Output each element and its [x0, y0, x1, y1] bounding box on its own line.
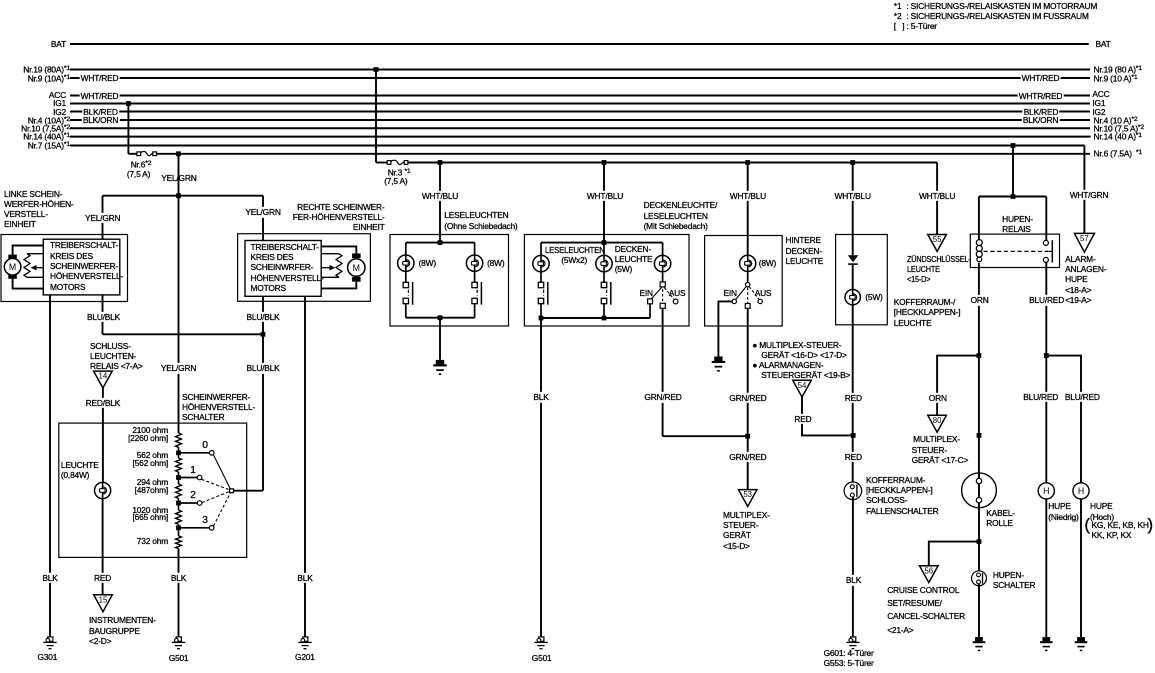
junction Nr.19 feed [374, 67, 379, 72]
label WHT/BLU 4 [833, 191, 872, 201]
wiper arrow left [31, 265, 44, 271]
wire ladder seg3 [178, 498, 180, 510]
connector 54 Alarmanlagen [793, 380, 812, 397]
wire EIN contact down [649, 304, 651, 318]
label resistor 732 [108, 536, 168, 546]
switch trunk lock [844, 482, 862, 500]
selector arm EIN dome [651, 287, 662, 299]
label BLK/RED right [1022, 106, 1059, 116]
wire BLU/BLK from left unit [102, 295, 104, 334]
label Leseleuchten 5Wx2 [545, 245, 605, 255]
wire switch down 1b [474, 304, 476, 318]
wire ORN branch to connector 80 [937, 356, 979, 416]
selector dashed AUS rear [749, 287, 759, 300]
label Multiplex 17-C [912, 434, 969, 465]
wire lamp to switch 2b [603, 272, 605, 283]
lamp reading right 8W [466, 255, 482, 271]
junction rail top box1 [438, 240, 443, 245]
label resistor 294 [108, 479, 168, 495]
wire tap 1 [179, 477, 198, 479]
label RED 54 [793, 414, 813, 424]
wire motor top left [13, 246, 44, 255]
wire Nr.19 down to fuse Nr.3 [375, 70, 377, 163]
relay actuation dashed [984, 250, 1049, 252]
label resistor 1020 [108, 507, 168, 523]
junction WHT/BLU 3 [745, 160, 750, 165]
selector dashed AUS dome [664, 288, 674, 300]
label ACC right [1092, 89, 1109, 99]
wire Nr.7 corner down to WHT/GRN drop [1083, 146, 1085, 234]
wire BLU/BLK down to wiper [262, 334, 264, 490]
wire YEL/GRN to left unit [102, 196, 104, 240]
label BLU/BLK lower [245, 363, 281, 373]
wire lamp drop 1b [474, 243, 476, 256]
wire to connector 56 [929, 542, 979, 566]
junction rail top box2 [602, 240, 607, 245]
fuse Nr.3 *1 (7,5A) [387, 160, 408, 164]
wire fuse Nr.3 feed stub [376, 162, 388, 164]
resistor feedback left [24, 254, 30, 278]
wire IG1 down to fuse Nr.6 [127, 104, 129, 154]
wire RED/BLK to lamp [102, 388, 104, 482]
wiper arm position 3 dashed [214, 493, 231, 526]
label Nr.19 right [1094, 64, 1142, 75]
driver circuit box right [245, 241, 321, 297]
label 5Wx2 [561, 255, 587, 265]
wire ladder seg2 [178, 472, 180, 484]
label Nr.14 left [0, 131, 70, 142]
wire resistor bottom left [27, 276, 43, 278]
label YEL/GRN fuse [161, 173, 196, 183]
label Nr.6 right [1094, 148, 1143, 159]
label Hupen-Relais [1002, 214, 1033, 235]
label WHT/RED right [1020, 73, 1061, 83]
wire rear lamp to pivot [747, 272, 749, 283]
label Alarmanlagen-Hupe [1065, 254, 1106, 305]
wire motor top right [321, 246, 356, 253]
wire ladder seg1 [178, 447, 180, 458]
wire YEL/GRN to level switch [178, 196, 180, 433]
wire GRN/RED from dome selector [662, 308, 664, 436]
lamp LEUCHTE 0.84W [95, 482, 111, 498]
svg-text:15: 15 [99, 595, 108, 604]
label note multiplex/alarm [752, 340, 850, 381]
wire resistor top left [27, 253, 43, 255]
label Hupe Hoch variants [1084, 520, 1089, 532]
label fuse Nr.3 [388, 167, 411, 178]
lamp dome 5W [654, 255, 670, 271]
ground G501 switch [172, 637, 185, 649]
legend note *1 [894, 1, 1097, 11]
label WHT/RED ACC left [79, 90, 120, 100]
wire horn switch to ground [978, 584, 980, 638]
svg-text:53: 53 [743, 490, 752, 499]
junction ORN [977, 353, 982, 358]
label Instrumenten-Baugruppe [89, 615, 156, 646]
wire ORN from coil [978, 263, 980, 356]
junction tap 1 [176, 475, 181, 480]
junction rail bottom box2 left [539, 316, 544, 321]
wire switch down 2a [540, 304, 542, 318]
label Kofferraum Leuchte [894, 297, 961, 328]
label Nr.10 right [1094, 123, 1145, 134]
lamp reading 5Wx2 mid [596, 255, 612, 271]
cable reel Kabel-Rolle [962, 473, 997, 508]
svg-text:56: 56 [924, 566, 933, 575]
relay contact [1043, 240, 1052, 262]
label Hupe Niedrig [1048, 501, 1078, 522]
label 8W left [419, 258, 436, 268]
label Kofferraum Schalter [866, 475, 938, 516]
wire resistor top right [321, 253, 339, 255]
resistor feedback right [336, 254, 342, 278]
selector arm EIN rear [736, 286, 747, 299]
reading lights box (ohne Schiebedach) [390, 235, 509, 327]
wire lamp to instrument [102, 499, 104, 595]
lamp trunk 5W [845, 290, 860, 305]
svg-text:M: M [9, 262, 16, 272]
wire motor bottom right [321, 282, 356, 289]
label Kabel-Rolle [986, 508, 1015, 529]
wire WHT/BLU drop 1 [439, 163, 441, 243]
label WHT/BLU 3 [728, 191, 767, 201]
junction BLU/RED [1044, 353, 1049, 358]
label RED/BLK [84, 397, 121, 407]
wire horn feed rail [979, 196, 1046, 198]
ground G501 dome box [534, 637, 547, 649]
label 8W right [487, 258, 504, 268]
label BLK G501 [169, 573, 187, 583]
junction horn feed [1011, 143, 1016, 148]
wire feed to coil [978, 197, 980, 240]
svg-text:57: 57 [1080, 234, 1089, 243]
label 8W rear [759, 258, 776, 268]
label fuse Nr.6 [131, 159, 152, 170]
motor M right [348, 253, 365, 281]
label Deckenleuchte header [644, 200, 718, 231]
wire switch down 1a [405, 304, 407, 318]
label BLU/BLK right [245, 311, 281, 321]
wire lamp to switch 1a [405, 271, 407, 282]
label WHT/BLU 1 [420, 191, 459, 201]
wiper arrow right [321, 265, 335, 271]
connector 80 Multiplex 17-C [928, 415, 947, 432]
wire BLU/RED to horn low [1045, 356, 1047, 483]
label Nr.4 left [0, 115, 70, 126]
label Nr.19 left [0, 64, 70, 75]
label G601/G553 [824, 648, 874, 669]
label BLK/ORN left [81, 115, 119, 125]
wire rail bottom box1 [406, 317, 475, 319]
switch reading left [403, 282, 413, 305]
junction WHT/BLU 1 [438, 160, 443, 165]
svg-text:80: 80 [933, 416, 942, 425]
wiper arm position 1 dashed [202, 479, 230, 490]
label WHT/GRN [1068, 190, 1110, 200]
wire trunk switch to ground [852, 497, 854, 637]
label level switch [182, 392, 255, 423]
wire lamp drop 2c [662, 243, 664, 256]
bus BAT [70, 43, 1089, 45]
wire wiper out [234, 490, 264, 492]
bus Nr.4 (10A) BLK/ORN [70, 119, 1090, 121]
wire Nr.6 line to right [157, 153, 1091, 155]
connector 14 Schlussleuchten-Relais [94, 371, 113, 388]
label cruise control [887, 584, 965, 638]
label IG2 right [1092, 107, 1105, 117]
label Decken-Leuchte 5W [615, 244, 653, 275]
svg-text:55: 55 [933, 235, 942, 244]
label BLK G201 [296, 573, 314, 583]
label Schlussleuchten-Relais [90, 341, 143, 372]
level switch box [59, 423, 247, 557]
ground reading lights [433, 360, 446, 375]
label position 0 [202, 441, 207, 451]
ground G301 [43, 637, 56, 649]
wire horn feed down [1012, 146, 1014, 197]
bus IG2 BLK/RED [70, 111, 1090, 113]
label 5W trunk [865, 292, 882, 302]
label right unit [275, 202, 385, 233]
wire horn high to ground [1080, 499, 1082, 637]
label Nr.10 left [0, 123, 70, 134]
driver circuit box left [43, 239, 120, 295]
right leveling unit box [238, 234, 371, 302]
resistor 1020 ohm [176, 510, 182, 524]
label left unit [4, 189, 74, 230]
wire BLK from box2 [540, 318, 542, 637]
wire switch down 2b [603, 304, 605, 318]
wire lamp drop 2b [603, 243, 605, 256]
junction cruise tap [977, 539, 982, 544]
wire YEL/GRN drop from fuse [178, 154, 180, 196]
resistor 2100 ohm [176, 433, 182, 447]
ground horn high [1075, 637, 1088, 651]
label BLK/RED left [82, 106, 119, 116]
wire tap 2 [179, 502, 198, 504]
connector 15 Instrumenten-Baugruppe [94, 595, 113, 612]
wire fuse Nr.6 feed line [128, 153, 137, 155]
wire BLK from left unit [49, 295, 51, 637]
label YEL/GRN switch [159, 363, 197, 373]
contact 3 [209, 526, 214, 531]
label YEL/GRN right unit [244, 207, 282, 217]
junction YEL/GRN tap [176, 151, 181, 156]
svg-text:H: H [1078, 486, 1084, 496]
label Nr.9 right [1094, 73, 1138, 84]
label IG2 left [0, 107, 66, 117]
wire lamp drop 2a [540, 243, 542, 256]
selector pivot dome [660, 282, 665, 287]
wire trunk lamp down [852, 305, 854, 485]
resistor 562 ohm [176, 458, 182, 472]
wire lamp to switch 1b [474, 271, 476, 282]
wire WHT/BLU drop 5 [936, 163, 938, 235]
relay coil [976, 240, 982, 262]
label EIN dome [640, 288, 653, 298]
junction YEL/GRN tee [176, 193, 181, 198]
label GRN/RED dome [643, 392, 683, 402]
label ORN relay [969, 295, 990, 305]
wire diode to lamp [852, 265, 854, 290]
label AUS dome [669, 288, 686, 298]
wire cable reel down [978, 508, 980, 573]
label BLK trunk [844, 575, 862, 585]
label RED trunk [843, 393, 863, 403]
junction RED 54 [851, 433, 856, 438]
label Nr.4 right [1094, 115, 1138, 126]
junction WHT/BLU 4 [850, 160, 855, 165]
label IG1 right [1092, 98, 1105, 108]
contact 1 [197, 475, 202, 480]
svg-text:14: 14 [99, 372, 108, 381]
contact 2 [197, 501, 202, 506]
label WHTR/RED right [1017, 90, 1064, 100]
wire box1 to ground [439, 318, 441, 360]
lamp reading left 8W [398, 255, 414, 271]
label BLU/RED high [1063, 392, 1101, 402]
resistor 732 ohm [176, 536, 182, 549]
connector 53 Multiplex [738, 490, 757, 507]
trunk light box [836, 235, 888, 325]
wire lamp drop 1a [405, 243, 407, 256]
label driver circuit right [251, 242, 324, 293]
label G301 [38, 652, 58, 662]
label fuse Nr.3 amp [384, 176, 407, 186]
label driver circuit left [50, 240, 123, 291]
contact EIN rear [732, 299, 736, 303]
junction tap 2 [176, 501, 181, 506]
contact AUS rear [758, 299, 762, 303]
label WHT/BLU 2 [585, 191, 624, 201]
fuse Nr.6 *2 (7,5A) [137, 152, 157, 156]
label RED instrument [93, 573, 113, 583]
label YEL/GRN left unit [84, 212, 122, 222]
label BAT left [0, 39, 66, 49]
bus ACC WHT/RED [70, 95, 1090, 97]
junction rail bottom box2 mid [602, 316, 607, 321]
connector 55 Zuendschluessel [928, 235, 947, 252]
wiper contact [230, 489, 234, 493]
wire GRN/RED rear down [747, 308, 749, 489]
ground horn switch [973, 637, 986, 651]
junction horn feed rail [1011, 194, 1016, 199]
label Leuchte 0.84W [61, 460, 99, 481]
label G201 [295, 652, 315, 662]
label WHT/BLU 5 [917, 191, 956, 201]
svg-text:H: H [1043, 486, 1049, 496]
label fuse Nr.6 amp [127, 169, 150, 179]
bus Nr.7 (15A) [70, 145, 1084, 147]
junction BLU/BLK [261, 332, 266, 337]
wire rail top box1 [406, 242, 475, 244]
label EIN rear [724, 288, 737, 298]
label Multiplex 15-D [723, 510, 770, 551]
contact mid dome [660, 303, 665, 308]
horn high (Hoch) [1073, 483, 1089, 499]
bus Nr.10 (7.5A) [70, 127, 1090, 129]
wire tap 0 [179, 452, 210, 454]
junction tap 0 [176, 450, 181, 455]
label GRN/RED rear [728, 393, 768, 403]
wire lamp to switch 2a [540, 272, 542, 283]
label G501 dome [532, 653, 552, 663]
label Nr.9 left [0, 73, 70, 84]
dome/reading lights box (mit Schiebedach) [524, 235, 689, 327]
wire ladder seg4 [178, 524, 180, 536]
diode trunk [848, 255, 859, 265]
junction rail bottom box1 [438, 315, 443, 320]
label GRN/RED rear 2 [728, 452, 768, 462]
wire tap 3 [179, 527, 210, 529]
label Nr.7 left [0, 140, 70, 151]
wire RED from connector 54 [802, 397, 853, 435]
legend note 5-Tuerer [894, 21, 937, 31]
switch reading 2a [538, 282, 548, 305]
wire BLK from right unit [304, 296, 306, 637]
wire rail top box2 [541, 242, 663, 244]
wire WHT/BLU drop 3 [747, 163, 749, 256]
label BLK/ORN right [1021, 115, 1059, 125]
switch reading 2b [601, 282, 611, 305]
svg-text:M: M [353, 263, 360, 273]
bus Nr.19 (80A) [70, 69, 1090, 71]
svg-text:54: 54 [798, 381, 807, 390]
ground G201 [298, 637, 311, 649]
wire rail bottom box2 [541, 317, 650, 319]
selector pivot rear [746, 282, 750, 286]
ground G601/G553 [846, 637, 859, 649]
bus Nr.14 (40A) [70, 136, 1091, 138]
junction GRN/RED [745, 434, 750, 439]
selector dashed center dome [662, 289, 664, 303]
label Hintere Deckenleuchte [786, 235, 824, 266]
junction IG1 feed [126, 101, 131, 106]
wire WHT/BLU drop 4 [852, 163, 854, 256]
label BLK dome [532, 392, 550, 402]
junction WHT/BLU 2 [602, 160, 607, 165]
contact mid rear [745, 304, 750, 309]
horn relay box [970, 234, 1059, 267]
label ORN 80 [927, 392, 948, 402]
label BLU/RED low [1022, 392, 1060, 402]
label RED trunk 2 [843, 452, 863, 462]
ground rear dome [712, 357, 725, 372]
contact EIN dome [648, 299, 653, 304]
label BLU/BLK left [85, 311, 121, 321]
wire ORN to cable reel [978, 356, 980, 473]
wire Nr.3 line to right [408, 162, 937, 164]
wire feed to contact [1045, 197, 1047, 241]
selector dashed center rear [747, 288, 749, 304]
label Zuendschluessel-Leuchte [907, 254, 971, 285]
label BLK G301 [41, 573, 59, 583]
label Hupen-Schalter [993, 570, 1035, 591]
label IG1 left [0, 98, 66, 108]
bus IG1 [70, 103, 1090, 105]
wire YEL/GRN header [103, 195, 264, 197]
contact AUS dome [673, 299, 678, 304]
label BAT right [1096, 39, 1111, 49]
label position 3 [202, 516, 207, 526]
junction tap 3 [176, 525, 181, 530]
wire BLU/RED branch [1046, 356, 1081, 483]
left leveling unit box [1, 235, 128, 302]
wire YEL/GRN to right unit [262, 196, 264, 241]
wire resistor bottom right [321, 276, 339, 278]
wiper arm position 0 [213, 455, 230, 489]
wire GRN/RED link [663, 435, 748, 437]
